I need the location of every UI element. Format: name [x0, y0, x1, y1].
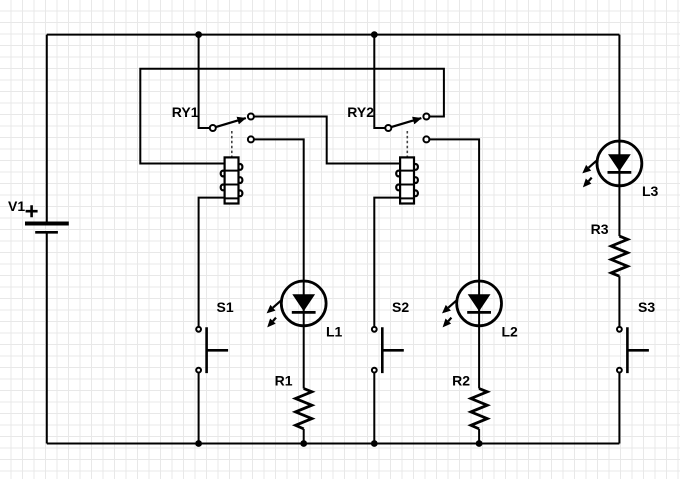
RY2 coil [396, 157, 418, 203]
RY2 actuation dashed link [406, 131, 408, 157]
LED L2 [442, 281, 518, 339]
wire RY2 NO contact to RY1 coil [140, 69, 444, 164]
wire R1 to bottom rail [303, 429, 305, 444]
wire left rail lower (V1 negative to bottom rail) [46, 231, 48, 443]
wire bottom rail [47, 443, 620, 445]
svg-text:S1: S1 [217, 299, 234, 315]
wire L2 cathode to R2 [478, 325, 480, 389]
svg-text:S2: S2 [392, 299, 409, 315]
wire L1 cathode to R1 [303, 325, 305, 389]
wire L3 cathode to R3 [618, 184, 620, 236]
wire RY1 coil to S1 [199, 198, 225, 327]
junction bottom rail at S1 [195, 440, 202, 447]
wire left rail upper (V1 positive to top rail) [46, 35, 48, 222]
wire S2 to bottom rail [373, 372, 375, 444]
svg-text:R2: R2 [452, 372, 470, 388]
svg-text:RY1: RY1 [172, 104, 199, 120]
RY1 NO pin [248, 114, 254, 120]
junction bottom rail at R1 [300, 440, 307, 447]
svg-text:R3: R3 [591, 221, 609, 237]
wire RY2 common feed from top rail [374, 35, 385, 128]
RY1 actuation dashed link [231, 131, 233, 157]
RY2 pivot (common pin) [385, 125, 391, 131]
wire S3 to bottom rail [618, 372, 620, 443]
junction top rail at RY1 feed [195, 31, 202, 38]
relay RY2 [347, 104, 429, 204]
pushbutton S1 [196, 299, 234, 373]
svg-text:S3: S3 [638, 299, 655, 315]
wire top rail [47, 34, 620, 36]
RY1 pivot (common pin) [210, 125, 216, 131]
junction bottom rail at R2 [476, 440, 483, 447]
wire RY1 NO contact to RY2 coil [254, 117, 400, 164]
wire R2 to bottom rail [478, 429, 480, 444]
wire right rail (top rail to L3 anode) [618, 35, 620, 143]
svg-text:L1: L1 [326, 323, 343, 339]
relay RY1 [172, 104, 254, 204]
junction top rail at RY2 feed [371, 31, 378, 38]
svg-text:L2: L2 [502, 323, 519, 339]
LED L1 [267, 281, 343, 339]
resistor R1 [275, 372, 312, 429]
pushbutton S2 [372, 299, 409, 373]
wire RY1 NC contact to L1 anode [254, 139, 304, 282]
RY1 coil [221, 157, 243, 203]
wire RY2 coil to S2 [374, 198, 400, 327]
resistor R3 [591, 221, 628, 276]
svg-text:V1: V1 [8, 198, 25, 214]
svg-text:L3: L3 [642, 183, 659, 199]
wire RY1 common feed from top rail [199, 35, 210, 128]
RY2 NO pin [423, 114, 429, 120]
wire RY2 NC contact to L2 anode [429, 139, 479, 282]
LED L3 [582, 141, 658, 199]
RY1 switch blade [216, 118, 246, 127]
pushbutton S3 [617, 299, 655, 373]
resistor R2 [452, 372, 487, 429]
svg-text:RY2: RY2 [347, 104, 374, 120]
svg-text:R1: R1 [275, 372, 293, 388]
wire R3 to S3 [618, 276, 620, 327]
RY1 NC pin [248, 136, 254, 142]
battery V1 [8, 198, 69, 232]
junction bottom rail at S2 [371, 440, 378, 447]
RY2 switch blade [391, 118, 421, 127]
RY2 NC pin [423, 136, 429, 142]
wire S1 to bottom rail [198, 372, 200, 444]
